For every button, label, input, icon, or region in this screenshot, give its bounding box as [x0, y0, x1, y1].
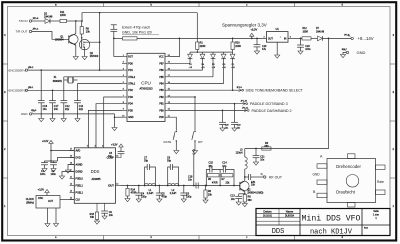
svg-text:nach KD1JV: nach KD1JV — [310, 229, 353, 237]
svg-text:2N7000: 2N7000 — [90, 55, 99, 58]
svg-text:XTAL1: XTAL1 — [128, 83, 136, 86]
svg-text:10n: 10n — [188, 179, 193, 182]
svg-text:Draufsicht: Draufsicht — [336, 189, 356, 194]
svg-text:4096kHz: 4096kHz — [53, 80, 63, 83]
svg-text:14: 14 — [116, 183, 118, 185]
svg-text:22p: 22p — [65, 108, 70, 111]
svg-text:AT90S2313: AT90S2313 — [139, 88, 153, 91]
svg-text:RF OUT: RF OUT — [269, 175, 283, 179]
svg-text:JP1-4: JP1-4 — [33, 29, 39, 31]
svg-text:AVD: AVD — [76, 150, 81, 153]
svg-text:ENCODER A: ENCODER A — [9, 68, 27, 72]
svg-text:T/R IN: T/R IN — [19, 19, 28, 23]
svg-text:16: 16 — [116, 156, 118, 158]
svg-text:12: 12 — [70, 184, 72, 186]
svg-text:JP1-8: JP1-8 — [33, 18, 39, 20]
svg-text:+3,3V: +3,3V — [38, 189, 45, 192]
svg-text:PD1: PD1 — [128, 70, 133, 72]
svg-text:100R: 100R — [303, 31, 309, 33]
svg-text:DGND: DGND — [76, 171, 83, 174]
svg-text:R12: R12 — [303, 28, 308, 30]
svg-text:2N3904: 2N3904 — [55, 39, 64, 42]
svg-text:PB1: PB1 — [159, 104, 164, 106]
svg-text:RATE: RATE — [164, 140, 172, 144]
svg-text:150p: 150p — [186, 196, 192, 199]
svg-text:GND, 10k Pin1 i20: GND, 10k Pin1 i20 — [122, 31, 152, 35]
svg-text:DVD: DVD — [76, 157, 81, 160]
svg-text:Spannungsregler 3,3V: Spannungsregler 3,3V — [222, 22, 267, 27]
svg-text:33p: 33p — [209, 165, 214, 168]
svg-text:PB7: PB7 — [159, 63, 164, 65]
svg-text:1N4148: 1N4148 — [44, 15, 53, 18]
svg-text:470p: 470p — [162, 196, 168, 199]
svg-text:RST: RST — [128, 57, 133, 59]
svg-text:Drehencoder: Drehencoder — [336, 164, 361, 169]
svg-text:JP1-9: JP1-9 — [237, 87, 243, 89]
svg-text:16.10.01: 16.10.01 — [263, 215, 273, 217]
svg-text:PSEL1: PSEL1 — [76, 192, 84, 195]
svg-text:GND: GND — [128, 117, 133, 119]
svg-text:33p: 33p — [167, 160, 172, 163]
svg-text:PD5: PD5 — [128, 110, 133, 112]
svg-text:2,2uH: 2,2uH — [147, 192, 154, 195]
svg-text:SIDE TONE/MEMO/BAND SELECT: SIDE TONE/MEMO/BAND SELECT — [246, 89, 304, 93]
svg-text:100n: 100n — [51, 173, 57, 176]
svg-text:4: 4 — [94, 145, 95, 147]
svg-text:OSC: OSC — [38, 197, 43, 200]
svg-text:PD3: PD3 — [128, 97, 133, 99]
svg-text:PB3: PB3 — [159, 90, 164, 92]
svg-text:120uH: 120uH — [235, 152, 242, 155]
svg-text:OUT: OUT — [268, 38, 273, 40]
svg-text:+3,3V: +3,3V — [42, 140, 49, 143]
svg-text:3: 3 — [102, 145, 103, 147]
svg-text:JP1-6: JP1-6 — [344, 35, 350, 37]
svg-text:PADDLE DASH/BAND 2: PADDLE DASH/BAND 2 — [252, 109, 292, 113]
svg-text:10n: 10n — [43, 108, 48, 111]
svg-text:10n: 10n — [222, 165, 227, 168]
svg-text:GND: GND — [357, 50, 366, 55]
svg-text:DDS: DDS — [272, 228, 285, 236]
svg-text:CPU: CPU — [141, 81, 151, 86]
svg-text:13: 13 — [70, 191, 72, 193]
svg-text:VCC: VCC — [159, 57, 164, 59]
svg-text:IN: IN — [284, 38, 287, 40]
svg-text:Name: Name — [286, 209, 294, 213]
svg-text:11: 11 — [70, 177, 72, 179]
svg-text:PD4: PD4 — [128, 104, 133, 106]
svg-text:+3,3V: +3,3V — [111, 143, 118, 146]
svg-text:10n: 10n — [251, 184, 256, 187]
svg-text:150p: 150p — [141, 196, 147, 199]
svg-text:PD2: PD2 — [128, 90, 133, 92]
svg-text:15n: 15n — [225, 128, 228, 130]
svg-text:+3,3V: +3,3V — [250, 28, 257, 32]
svg-text:AD9835: AD9835 — [91, 178, 101, 181]
svg-text:Mini DDS VFO: Mini DDS VFO — [302, 214, 361, 224]
svg-text:220R: 220R — [200, 45, 206, 48]
svg-text:JP1-7: JP1-7 — [342, 49, 348, 51]
svg-text:JP1-10: JP1-10 — [241, 101, 248, 103]
svg-text:PD6: PD6 — [159, 117, 164, 119]
svg-text:AGND: AGND — [76, 164, 83, 167]
svg-text:PB5: PB5 — [159, 77, 164, 79]
svg-text:T/R OUT: T/R OUT — [16, 30, 28, 34]
svg-text:220R: 220R — [60, 14, 66, 17]
svg-text:JP1-11: JP1-11 — [242, 107, 249, 109]
svg-text:FSEL0: FSEL0 — [76, 178, 84, 181]
svg-text:CLK: CLK — [76, 199, 81, 202]
svg-text:15n: 15n — [237, 128, 240, 130]
svg-text:100n: 100n — [40, 173, 46, 176]
svg-text:ENCODER B: ENCODER B — [9, 89, 27, 93]
svg-text:Rate: Rate — [377, 180, 384, 184]
svg-text:PB2: PB2 — [159, 97, 164, 99]
svg-text:XTAL2: XTAL2 — [128, 76, 136, 79]
svg-text:+8...14V: +8...14V — [358, 36, 374, 41]
svg-text:RIT: RIT — [198, 140, 203, 144]
svg-text:DDS: DDS — [91, 169, 100, 174]
svg-text:1N4148: 1N4148 — [316, 31, 325, 33]
svg-text:340: 340 — [90, 216, 95, 219]
svg-text:PB0: PB0 — [159, 110, 164, 112]
svg-text:470R: 470R — [212, 181, 218, 184]
svg-text:10n: 10n — [54, 108, 59, 111]
svg-text:Datum: Datum — [263, 209, 272, 213]
svg-text:680: 680 — [265, 145, 270, 148]
svg-text:47u: 47u — [262, 48, 267, 51]
svg-text:22p: 22p — [79, 108, 84, 111]
svg-text:2,2uH: 2,2uH — [170, 192, 177, 195]
svg-text:10n: 10n — [108, 155, 113, 158]
svg-text:5: 5 — [87, 145, 88, 147]
svg-text:Extern 470p nach: Extern 470p nach — [122, 26, 150, 30]
svg-text:10n: 10n — [109, 214, 114, 217]
svg-text:10n: 10n — [260, 158, 265, 161]
svg-text:PB6: PB6 — [159, 70, 164, 72]
svg-text:10n: 10n — [231, 198, 236, 201]
svg-text:220R: 220R — [235, 45, 241, 48]
svg-text:2N3904 (SMD): 2N3904 (SMD) — [247, 192, 263, 195]
svg-text:PB4: PB4 — [159, 84, 164, 86]
svg-text:100n: 100n — [305, 48, 311, 51]
svg-text:PADDLE DOT/BAND 3: PADDLE DOT/BAND 3 — [250, 102, 288, 106]
svg-text:GND: GND — [21, 112, 29, 116]
svg-text:680: 680 — [248, 199, 253, 202]
svg-text:FSEL1: FSEL1 — [76, 185, 84, 188]
svg-text:IOUT: IOUT — [108, 184, 114, 187]
svg-text:Revi: Revi — [364, 227, 369, 229]
svg-text:GND: GND — [313, 173, 321, 177]
svg-text:33p: 33p — [144, 160, 149, 163]
svg-text:(5MHz): (5MHz) — [26, 201, 34, 204]
svg-text:DL6GSA: DL6GSA — [285, 214, 295, 217]
svg-text:PD0: PD0 — [128, 63, 133, 65]
svg-text:OUT: OUT — [48, 200, 54, 203]
